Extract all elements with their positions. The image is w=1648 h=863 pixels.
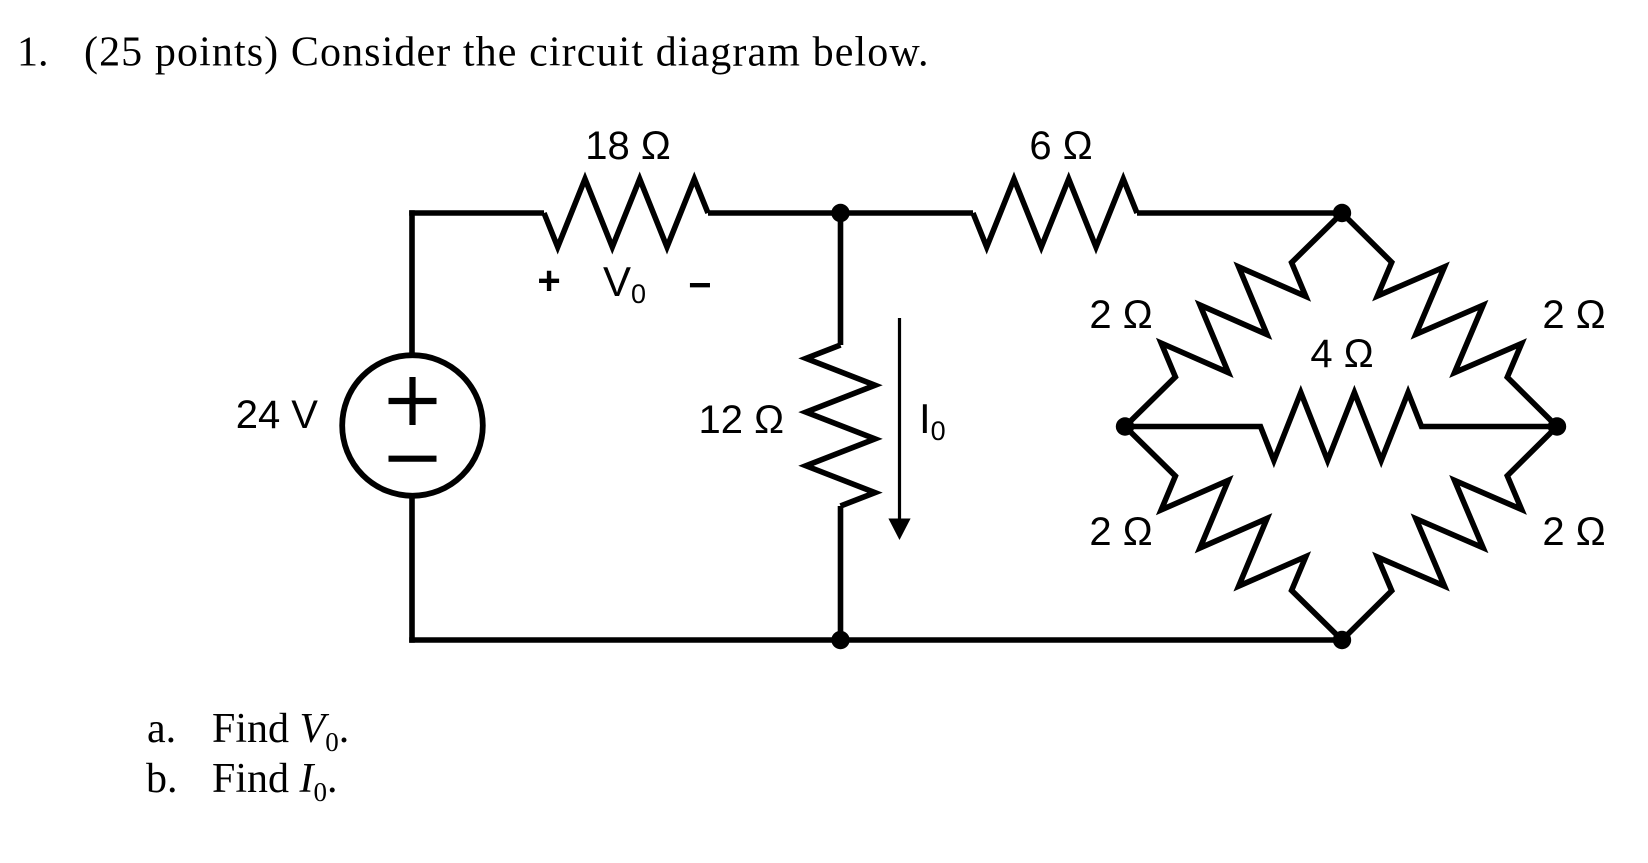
svg-text:I0: I0 <box>919 395 946 446</box>
node bridge bottom <box>1333 631 1351 649</box>
svg-text:2 Ω: 2 Ω <box>1542 293 1605 337</box>
wire middle vertical upper (top node to 12 ohm) <box>838 213 844 345</box>
svg-text:(25 points) Consider the circu: (25 points) Consider the circuit diagram… <box>84 30 930 76</box>
svg-text:b.: b. <box>146 756 178 802</box>
svg-text:V0: V0 <box>603 258 646 309</box>
svg-text:4 Ω: 4 Ω <box>1310 332 1373 376</box>
node top middle <box>831 204 849 222</box>
resistor 12 ohm <box>806 345 875 506</box>
resistor 18 ohm <box>544 179 708 247</box>
svg-text:+: + <box>537 259 560 303</box>
svg-text:Find I0.: Find I0. <box>212 756 338 807</box>
resistor 2 ohm bridge bottom-left arm <box>1125 427 1342 641</box>
wire top-left horizontal (source top to 18 ohm) <box>409 210 544 216</box>
wire middle vertical lower (12 ohm to bottom node) <box>838 506 844 640</box>
voltage source plus sign <box>389 377 437 425</box>
svg-text:2 Ω: 2 Ω <box>1089 293 1152 337</box>
svg-text:6 Ω: 6 Ω <box>1029 124 1092 168</box>
node bridge right <box>1548 417 1566 435</box>
node bridge top <box>1333 204 1351 222</box>
wire bottom horizontal <box>409 637 1342 643</box>
wire top middle (18 ohm to node, node to 6 ohm) <box>708 210 973 216</box>
svg-text:Find V0.: Find V0. <box>212 706 349 757</box>
svg-text:2 Ω: 2 Ω <box>1542 510 1605 554</box>
voltage source minus sign <box>389 456 437 462</box>
wire left vertical upper (top corner to source) <box>409 210 415 353</box>
current arrow I0 <box>888 318 910 540</box>
svg-text:24 V: 24 V <box>236 393 319 437</box>
node bridge left <box>1116 417 1134 435</box>
voltage source 24 V circle <box>342 355 483 496</box>
svg-text:18 Ω: 18 Ω <box>585 124 671 168</box>
resistor 4 ohm bridge middle <box>1125 393 1557 461</box>
svg-text:a.: a. <box>147 706 176 752</box>
svg-text:2 Ω: 2 Ω <box>1089 510 1152 554</box>
svg-text:−: − <box>688 264 711 308</box>
resistor 2 ohm bridge top-left arm <box>1125 213 1342 427</box>
resistor 6 ohm <box>973 179 1137 247</box>
svg-text:12 Ω: 12 Ω <box>698 398 784 442</box>
resistor 2 ohm bridge bottom-right arm <box>1342 427 1557 641</box>
node bottom middle <box>831 631 849 649</box>
resistor 2 ohm bridge top-right arm <box>1342 213 1557 427</box>
wire left vertical lower (source to bottom corner) <box>409 498 415 643</box>
svg-text:1.: 1. <box>17 30 49 76</box>
wire top right (6 ohm to bridge top node) <box>1137 210 1342 216</box>
